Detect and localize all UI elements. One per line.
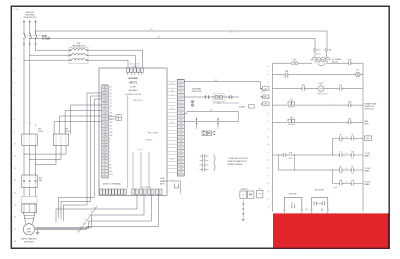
svg-text:DI3: DI3 (104, 112, 107, 114)
svg-text:SEL: SEL (351, 158, 354, 160)
svg-text:CONT.: CONT. (65, 131, 71, 133)
svg-text:19: 19 (180, 144, 182, 146)
destination tag 1 (261, 88, 263, 90)
svg-text:DI3: DI3 (109, 90, 112, 92)
wire to control transformer primary H2 (30, 38, 315, 48)
motor ground wire (37, 229, 39, 232)
option card pin rows (200, 154, 209, 171)
svg-text:1: 1 (180, 81, 181, 83)
svg-text:T1 1.5KVA: T1 1.5KVA (332, 58, 341, 61)
svg-text:DI4: DI4 (109, 93, 112, 95)
control relay coil 1CR (305, 88, 318, 90)
wire L3 (35, 21, 37, 51)
rung8 branch vertical (332, 170, 334, 184)
svg-text:TO DDC: TO DDC (365, 153, 372, 155)
line reactor 1LR (69, 43, 88, 63)
bottom cluster B contacts (314, 201, 317, 205)
feeder terminal marks (23, 43, 36, 45)
sub-rung HI (333, 137, 340, 139)
svg-text:TO DDC: TO DDC (365, 182, 372, 184)
svg-text:U V W: U V W (138, 150, 143, 152)
svg-text:16: 16 (180, 134, 182, 136)
wires contactor 1M output (24, 146, 36, 176)
svg-text:DI5: DI5 (109, 96, 112, 98)
fuse bump under rung1 (318, 63, 325, 65)
svg-text:E: E (109, 151, 110, 153)
svg-text:SEE NOTE 3: SEE NOTE 3 (133, 100, 143, 102)
svg-text:+24: +24 (104, 125, 107, 127)
wire drive output W (35, 194, 158, 229)
svg-text:+10: +10 (171, 122, 174, 124)
svg-text:2TB 3TB: 2TB 3TB (241, 189, 249, 191)
bottom cluster B feet (311, 209, 313, 211)
aux box (257, 191, 263, 198)
rung6 tee downs (277, 155, 279, 170)
svg-text:101: 101 (230, 32, 233, 34)
svg-text:20: 20 (180, 148, 182, 150)
wire drive aux output (56, 194, 137, 222)
control transformer T1 (311, 51, 342, 63)
svg-text:ATV71: ATV71 (160, 183, 165, 186)
svg-text:444: 444 (345, 182, 347, 184)
svg-text:1FU: 1FU (318, 50, 321, 52)
control terminal strip 1TB (177, 80, 184, 177)
svg-text:(AT BOT - TERMINAL): (AT BOT - TERMINAL) (103, 182, 122, 185)
option card terminals (202, 131, 212, 136)
svg-text:STOP: STOP (284, 77, 288, 79)
svg-text:SUPPLY FAN SF-1: SUPPLY FAN SF-1 (21, 238, 37, 241)
rung3 contact 1M aux (324, 88, 340, 90)
svg-text:F: F (109, 155, 110, 157)
svg-text:P24: P24 (104, 129, 107, 131)
wire drive output V (35, 194, 151, 228)
svg-text:11: 11 (180, 116, 182, 118)
svg-text:H1 H4: H1 H4 (316, 54, 320, 56)
shield ground chain (242, 198, 244, 219)
rung5 wire (295, 121, 348, 123)
pilot light 1LT (356, 72, 361, 77)
svg-text:B: B (109, 142, 110, 144)
drive internal output wiring (133, 152, 149, 189)
contactor 1M (22, 129, 44, 146)
rung4 wire (295, 104, 348, 106)
wire strip to tag row (184, 111, 238, 121)
svg-text:442: 442 (345, 153, 347, 155)
svg-text:+10: +10 (171, 95, 174, 97)
svg-text:18: 18 (180, 141, 182, 143)
svg-text:24: 24 (180, 162, 182, 164)
shield drain symbols (191, 100, 194, 103)
row number ticks (14, 34, 17, 243)
svg-text:+10: +10 (171, 90, 174, 92)
svg-text:+10: +10 (171, 108, 174, 110)
svg-text:WIRING DETAILS.: WIRING DETAILS. (228, 163, 244, 166)
svg-text:(480 VAC): (480 VAC) (129, 89, 138, 92)
svg-text:40 HP 460V: 40 HP 460V (24, 242, 34, 244)
svg-text:2: 2 (180, 85, 181, 87)
svg-text:H: H (109, 161, 110, 163)
svg-text:23: 23 (180, 158, 182, 160)
wires overload to disconnect (24, 188, 36, 197)
fuse 2FU (325, 49, 328, 52)
svg-text:DI6: DI6 (109, 99, 112, 101)
svg-text:MTR: MTR (27, 228, 32, 230)
svg-text:1SW: 1SW (348, 60, 352, 62)
svg-text:25: 25 (180, 165, 182, 167)
svg-text:420: 420 (210, 110, 213, 112)
rung4 contact (348, 103, 351, 107)
svg-text:5: 5 (180, 95, 181, 97)
hanging contact b (217, 117, 219, 125)
motor circuit wire tags (76, 205, 97, 233)
svg-text:1CB: 1CB (42, 35, 47, 38)
wire L2 (29, 21, 31, 135)
svg-text:24V: 24V (258, 188, 261, 190)
svg-text:E: E (104, 174, 105, 176)
svg-text:14: 14 (180, 127, 182, 129)
cluster suppressor box (213, 94, 225, 101)
svg-text:2-SPD SW: 2-SPD SW (288, 194, 297, 196)
fuse 1FU (314, 49, 317, 52)
wire L1 (23, 21, 25, 135)
red redaction box over title block (273, 213, 389, 247)
svg-text:101: 101 (150, 29, 153, 31)
rung8 wire (333, 183, 340, 185)
svg-text:REMOTE START/STOP: REMOTE START/STOP (228, 160, 248, 163)
svg-text:1 2: 1 2 (242, 194, 244, 196)
disconnect switch on rung1 (348, 61, 351, 65)
svg-text:PS: PS (259, 194, 261, 196)
svg-text:4CR RELAY: 4CR RELAY (192, 87, 202, 90)
svg-text:DI4: DI4 (104, 116, 107, 118)
sub-rung HI tag (365, 136, 372, 141)
lower link pair (205, 132, 213, 134)
wire strip to relay cluster top (184, 82, 260, 89)
ladder rung number dots (267, 66, 270, 207)
svg-text:12: 12 (180, 120, 182, 122)
svg-text:ALT RELAY: ALT RELAY (315, 189, 325, 192)
svg-text:DWG E-103: DWG E-103 (365, 108, 374, 110)
wires drive terminals to contactor 2M (71, 105, 102, 134)
overload relay 1OL (22, 175, 43, 188)
wire L1 to reactor (24, 59, 72, 61)
border lines over red box (273, 213, 389, 248)
svg-text:+10: +10 (171, 159, 174, 161)
svg-text:+10: +10 (171, 180, 174, 182)
contactor 2M (53, 129, 71, 146)
circuit breaker 1CB (23, 33, 50, 41)
transformer secondary drops (315, 62, 327, 65)
svg-text:TO DDC: TO DDC (365, 168, 372, 170)
rung5 device 1M coil boxes (273, 121, 288, 123)
rung2 contact 1PB (273, 74, 286, 76)
svg-text:P24: P24 (109, 106, 112, 108)
cluster contact 1 (206, 95, 209, 99)
local disconnect station (22, 197, 37, 213)
svg-text:FROM PNL DP-1: FROM PNL DP-1 (24, 17, 37, 19)
svg-text:+24: +24 (109, 103, 112, 105)
svg-text:4: 4 (180, 92, 181, 94)
svg-text:1. SEE DWG E-104 FOR: 1. SEE DWG E-104 FOR (228, 158, 249, 160)
svg-text:416: 416 (264, 104, 267, 106)
drive control terminal strip (left column) (102, 85, 114, 178)
ladder left rail (272, 63, 274, 211)
motor M1 cable transition (24, 213, 36, 224)
notes bracket (214, 155, 216, 172)
rung1 wire right (351, 62, 363, 64)
svg-text:17: 17 (180, 137, 182, 139)
bottom cluster B bracket (312, 197, 328, 208)
svg-text:15: 15 (180, 130, 182, 132)
wire L2 to reactor (30, 54, 72, 56)
svg-text:SS: SS (351, 180, 353, 182)
svg-text:6: 6 (180, 99, 181, 101)
svg-text:7: 7 (180, 102, 181, 104)
rung6 wire (286, 154, 340, 156)
svg-text:R/L1 S/L2 T/L3: R/L1 S/L2 T/L3 (130, 63, 140, 65)
svg-text:(SEE NOTE 1): (SEE NOTE 1) (318, 94, 329, 96)
svg-text:27: 27 (180, 172, 182, 174)
ladder right rail (362, 63, 364, 211)
svg-text:B: B (104, 164, 105, 166)
svg-text:ATV 71: ATV 71 (129, 82, 138, 85)
strip drain wire (162, 181, 180, 194)
svg-text:10: 10 (180, 113, 182, 115)
shield clamp glyph (175, 184, 179, 189)
wires contactor 2M output merge (36, 146, 57, 165)
svg-text:13: 13 (180, 123, 182, 125)
hanging contact a (196, 117, 198, 125)
svg-text:ALTIVAR: ALTIVAR (128, 77, 138, 80)
svg-text:DI6: DI6 (104, 122, 107, 124)
svg-text:1T: 1T (333, 187, 335, 189)
fuse 3FU (291, 62, 294, 65)
svg-text:2FU: 2FU (329, 50, 332, 52)
junction dots on feeder (23, 121, 36, 125)
drive bottom power terminals (100, 189, 163, 194)
motor M1 (23, 224, 34, 235)
svg-text:21: 21 (180, 151, 182, 153)
wire L3 to reactor (36, 49, 72, 51)
svg-text:441: 441 (345, 137, 347, 139)
rung5 contact (348, 120, 351, 124)
wires drive strip to operator station (59, 99, 102, 215)
svg-text:9: 9 (180, 109, 181, 111)
cluster second wire (213, 102, 239, 104)
wire reactor to drive L3 (87, 50, 143, 68)
svg-text:1LT: 1LT (356, 70, 359, 72)
svg-text:102: 102 (157, 37, 160, 39)
operator wires into station (59, 215, 64, 221)
wire reactor to drive L1 (87, 60, 128, 68)
svg-text:HOT: HOT (262, 92, 266, 94)
wire drive output U (35, 194, 144, 227)
wire reactor to drive L2 (87, 55, 136, 68)
rung1 wire mid (298, 62, 348, 64)
rung6 contact 3CR (273, 154, 284, 156)
svg-text:8: 8 (180, 106, 181, 108)
VFD drive 1VFD outline (99, 68, 167, 195)
svg-text:SS: SS (351, 135, 353, 137)
svg-text:26: 26 (180, 169, 182, 171)
svg-text:SEL: SEL (351, 173, 354, 175)
drive input terminals L1 L2 L3 (126, 63, 143, 75)
svg-text:SS: SS (351, 151, 353, 153)
svg-text:40 AMP: 40 AMP (42, 37, 51, 40)
svg-text:40 HP: 40 HP (130, 87, 136, 89)
svg-text:3: 3 (180, 88, 181, 90)
svg-text:R1B: R1B (103, 138, 106, 140)
svg-text:443: 443 (345, 168, 347, 170)
rung7 wire (278, 169, 339, 171)
svg-text:(DWG E-104): (DWG E-104) (192, 91, 202, 93)
svg-text:LINE REACTOR: LINE REACTOR (72, 45, 86, 48)
bottom cluster A bracket (285, 197, 302, 208)
svg-text:DI5: DI5 (104, 119, 107, 121)
svg-text:+10: +10 (171, 83, 174, 85)
cluster main wire (184, 96, 239, 98)
svg-text:1-2: 1-2 (291, 203, 293, 205)
braking jumper PA/PB (108, 117, 116, 120)
svg-text:1VFD: 1VFD (160, 178, 165, 180)
svg-text:SS: SS (351, 166, 353, 168)
destination tag 2 (261, 96, 263, 98)
wire strip lower (184, 121, 238, 123)
drive to terminal strip connectors (167, 81, 177, 172)
svg-text:DI1: DI1 (104, 106, 107, 108)
rung1 wire left (273, 62, 292, 64)
svg-text:40HP: 40HP (27, 232, 32, 234)
svg-text:CONT.: CONT. (38, 131, 44, 133)
wire to control transformer primary H1 (36, 31, 328, 48)
sub-rung branch vertical (332, 138, 334, 155)
svg-text:418: 418 (214, 80, 217, 82)
svg-text:DI2: DI2 (109, 86, 112, 88)
cluster contact 2 (229, 95, 232, 99)
svg-text:E-102: E-102 (14, 9, 20, 11)
bottom cluster A feet (284, 209, 286, 211)
drive inner section divider (127, 95, 129, 188)
rung3 contact 2PB (273, 88, 303, 90)
svg-text:0V: 0V (109, 109, 111, 111)
rung4 device 2M coil boxes (273, 104, 288, 106)
svg-text:DI2: DI2 (104, 109, 107, 111)
svg-text:22: 22 (180, 155, 182, 157)
destination tag 3 (261, 103, 263, 105)
